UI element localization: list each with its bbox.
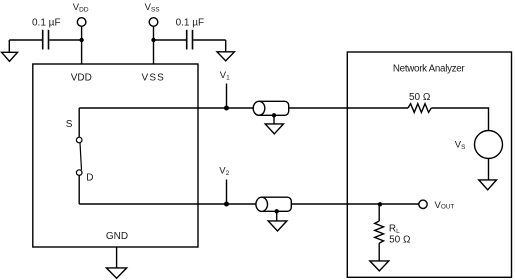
svg-text:Network Analyzer: Network Analyzer xyxy=(393,64,466,75)
svg-text:GND: GND xyxy=(106,231,128,242)
svg-text:D: D xyxy=(86,173,93,184)
svg-text:50 Ω: 50 Ω xyxy=(409,92,431,103)
svg-text:50 Ω: 50 Ω xyxy=(389,235,411,246)
svg-text:S: S xyxy=(66,119,73,130)
svg-text:0.1 µF: 0.1 µF xyxy=(176,18,205,29)
svg-text:0.1 µF: 0.1 µF xyxy=(32,18,61,29)
svg-text:VDD: VDD xyxy=(71,72,92,83)
svg-text:VSS: VSS xyxy=(142,72,165,83)
